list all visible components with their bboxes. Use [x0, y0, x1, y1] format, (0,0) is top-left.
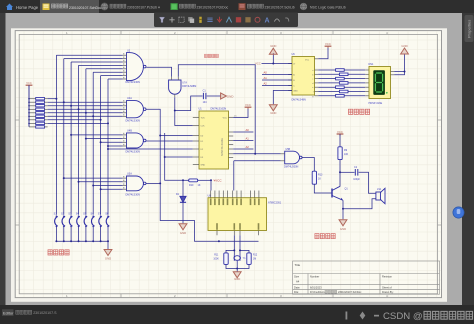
wire: oscillator bottoms joined [226, 261, 249, 272]
net label A0 (U6) [262, 71, 292, 75]
ground bus of key matrix [55, 240, 109, 249]
AND gate U7A DM74LS08M (rotated, inputs top) [169, 77, 197, 97]
svg-text:U3A: U3A [127, 173, 132, 176]
svg-text:2301020107.SchLib: 2301020107.SchLib [265, 6, 295, 10]
power VCC (R9) [337, 130, 344, 147]
svg-text:GND: GND [227, 94, 235, 98]
wire: U5B input B from 8051 [234, 161, 281, 191]
svg-text:GND: GND [105, 257, 111, 261]
svg-text:S7: S7 [98, 212, 102, 216]
crystal Y1 [234, 255, 246, 261]
svg-text:A2: A2 [246, 145, 250, 149]
resistor pack RP2 (7 segment resistors) [318, 69, 369, 97]
svg-text:CLK: CLK [201, 126, 206, 128]
svg-text:GND: GND [340, 227, 346, 231]
svg-text:File:: File: [294, 290, 299, 294]
svg-text:c: c [312, 79, 313, 81]
svg-text:A: A [265, 17, 270, 24]
svg-text:6/01/2023: 6/01/2023 [310, 285, 322, 289]
svg-text:A1: A1 [246, 137, 250, 141]
wire: R9 to Q1 collector node [339, 160, 341, 187]
svg-text:Number: Number [310, 274, 319, 278]
svg-text:CSDN @: CSDN @ [383, 311, 423, 322]
svg-text:Drawn By:: Drawn By: [382, 291, 394, 294]
svg-text:DS1: DS1 [369, 63, 374, 66]
svg-text:U4A: U4A [127, 97, 132, 100]
svg-text:S4: S4 [76, 212, 80, 216]
svg-text:VCC: VCC [26, 81, 32, 85]
svg-text:HDSP-313E: HDSP-313E [369, 102, 383, 105]
NAND gate U3A DM74LS30N [123, 173, 146, 197]
transistor Q1 [332, 186, 348, 200]
svg-text:GND: GND [270, 44, 276, 48]
net label A0 (U1) [233, 128, 253, 132]
section label kongzhi [205, 54, 219, 57]
resistor R9 100 [338, 147, 349, 160]
NAND gate U4A DM74LS30N [123, 97, 146, 122]
wire: U4B output to D1 [146, 140, 193, 142]
svg-text:R10: R10 [189, 184, 194, 187]
wire: U4A output to D0 and RST run [146, 109, 259, 242]
net label A1 (U1) [233, 137, 253, 141]
svg-text:Revision: Revision [382, 274, 393, 278]
svg-text:VCC: VCC [325, 42, 331, 46]
section label shuchu [315, 234, 335, 239]
wire: XTAL1/XTAL2 to crystal [234, 235, 240, 255]
svg-text:2301020107.S: 2301020107.S [33, 311, 57, 315]
svg-text:d: d [312, 83, 313, 85]
svg-text:2301020107.SchDoc: 2301020107.SchDoc [69, 6, 102, 10]
net label A2 (U6) [262, 82, 292, 86]
svg-text:S2: S2 [61, 212, 65, 216]
svg-text:AT89C2051: AT89C2051 [268, 202, 282, 205]
svg-text:GND: GND [180, 231, 186, 235]
svg-text:DM74LS163N: DM74LS163N [211, 108, 227, 111]
net label +VCC (R10) [214, 179, 223, 183]
svg-text:2301020107.PcbLib ▾: 2301020107.PcbLib ▾ [127, 6, 160, 10]
switches S1-S8 [54, 212, 110, 242]
svg-text:¥VCC: ¥VCC [214, 179, 223, 183]
svg-text:U5B: U5B [286, 148, 291, 151]
ground GND (D1) [179, 224, 187, 235]
resistor R13 1K [312, 171, 323, 184]
svg-text:g: g [312, 96, 313, 98]
svg-text:Size: Size [294, 274, 300, 278]
NAND gate U2 DM74LS30N (8-input) [123, 49, 146, 84]
svg-text:S3: S3 [68, 212, 72, 216]
title block [293, 261, 440, 294]
IC U6 DM74LS48N (7-seg decoder) [288, 53, 318, 101]
net label A2 (U1) [233, 145, 253, 149]
svg-text:Sheet of: Sheet of [382, 285, 392, 289]
capacitor C1 104 [203, 89, 208, 104]
power VCC (U6) [318, 42, 331, 59]
svg-text:Home Page: Home Page [16, 5, 39, 10]
wire: U3A output joins column [146, 182, 162, 184]
svg-text:100pF: 100pF [353, 178, 360, 181]
resistor R11 100K [213, 249, 235, 264]
svg-text:DM74LS30N: DM74LS30N [126, 81, 141, 84]
power VCC (U1 pin16) [233, 103, 251, 118]
svg-text:1K: 1K [318, 178, 321, 181]
wire: speaker return to Q1 emitter [342, 199, 376, 220]
power port VCC (left of U6 LT wire) [255, 62, 261, 66]
svg-text:GND: GND [234, 277, 240, 281]
IC U8 AT89C2051 (MCU) [208, 191, 282, 236]
wire: D3 net to R10 rail [164, 133, 193, 181]
wires: pack rows to key columns and NAND U2 inputs [48, 55, 123, 215]
wire: R13 to Q1 base [314, 184, 332, 193]
svg-text:S6: S6 [91, 212, 95, 216]
svg-text:S1: S1 [54, 212, 58, 216]
svg-text:TCK: TCK [201, 118, 206, 120]
svg-text:Editor: Editor [3, 310, 14, 315]
ground GND (Q1 emitter) [339, 220, 347, 231]
ground GND (U6) [269, 91, 292, 116]
IC U1 DM74LS163N (counter) [193, 108, 237, 169]
svg-text:GND: GND [293, 91, 298, 93]
svg-text:U4B: U4B [127, 129, 132, 132]
svg-text:A2: A2 [264, 82, 268, 86]
svg-text:R13: R13 [318, 173, 323, 176]
power port GND above U6 LT [262, 44, 293, 64]
capacitor C2 100pF [340, 166, 361, 181]
svg-text:DM74LS30N: DM74LS30N [126, 119, 141, 122]
ground GND (crystal) [233, 272, 241, 281]
svg-text:1M: 1M [253, 258, 256, 260]
resistor R12 1M [239, 249, 258, 264]
NAND gate U5B DM74LS00N [281, 148, 303, 168]
svg-text:VCC: VCC [337, 130, 343, 134]
section label xianshi [349, 109, 370, 114]
power port GND (C1) arrow right [207, 93, 235, 99]
speaker LS1 [376, 188, 385, 204]
svg-text:A0: A0 [264, 71, 268, 75]
wires: column branches to NAND U4B and U3A inputs [63, 134, 123, 190]
svg-text:DM74LS08M: DM74LS08M [182, 85, 196, 88]
resistor pack RP1 (9 pull-up resistors) [28, 98, 47, 129]
7-segment display DS1 HDSP-313E [369, 63, 395, 105]
wire: U7A output to CLK with C1 branch [174, 96, 203, 126]
svg-text:GND: GND [401, 44, 407, 48]
svg-text:VCC: VCC [223, 118, 228, 120]
svg-text:DM74LS00N: DM74LS00N [284, 166, 299, 169]
svg-text:LS1: LS1 [377, 188, 382, 191]
svg-text:Title: Title [295, 263, 301, 267]
svg-text:Date:: Date: [294, 285, 300, 289]
svg-text:VCC: VCC [305, 60, 310, 62]
wire: U5B out to R13 [302, 158, 315, 172]
svg-text:DM74LS30N: DM74LS30N [126, 151, 141, 154]
resistor R10 1K [183, 179, 212, 187]
svg-text:DM74LS30N: DM74LS30N [126, 194, 141, 197]
svg-text:100: 100 [344, 153, 349, 156]
wire: U1 Q to U5B input A [233, 153, 280, 155]
svg-text:GND: GND [201, 165, 206, 167]
wire: R10 node to 8051 pin1 [210, 180, 212, 190]
svg-text:S5: S5 [83, 212, 87, 216]
svg-text:A1: A1 [264, 76, 268, 80]
diode D1 [176, 180, 186, 223]
svg-text:Properties: Properties [467, 20, 472, 38]
net label A1 (U6) [262, 76, 292, 80]
svg-text:D:\OneDrive\..: D:\OneDrive\.. [310, 291, 326, 294]
svg-text:2301020107.PcbDoc: 2301020107.PcbDoc [197, 6, 229, 10]
svg-text:NSC Logic Gate.PcbLib: NSC Logic Gate.PcbLib [310, 6, 346, 10]
wire: U2 output to U7A input [146, 67, 171, 77]
wire: C2 to speaker [359, 172, 376, 193]
svg-text:A4: A4 [296, 279, 300, 283]
ground GND (key matrix) [104, 250, 112, 261]
svg-text:SN54/74LS163A: SN54/74LS163A [221, 138, 224, 156]
section label bianma [48, 250, 69, 255]
svg-text:GND: GND [270, 111, 276, 115]
svg-text:VCC: VCC [245, 103, 251, 107]
svg-text:A0: A0 [246, 128, 250, 132]
svg-text:1K: 1K [198, 184, 201, 187]
wire: key column to D2 [107, 148, 193, 150]
svg-text:100K: 100K [213, 258, 219, 260]
svg-text:S8: S8 [105, 212, 109, 216]
wire + ground GND (display common) [394, 44, 408, 75]
wire: feedback net to U7A input 2 [178, 65, 256, 155]
svg-text:VCC: VCC [255, 62, 261, 66]
NAND gate U4B DM74LS30N [123, 129, 146, 153]
svg-text:R12: R12 [253, 255, 258, 257]
svg-text:104: 104 [203, 101, 208, 104]
svg-text:DM74LS48N: DM74LS48N [292, 98, 307, 101]
power VCC (resistor pack pull-up) [26, 81, 33, 99]
svg-text:2301020107.SchDoc: 2301020107.SchDoc [338, 291, 362, 294]
